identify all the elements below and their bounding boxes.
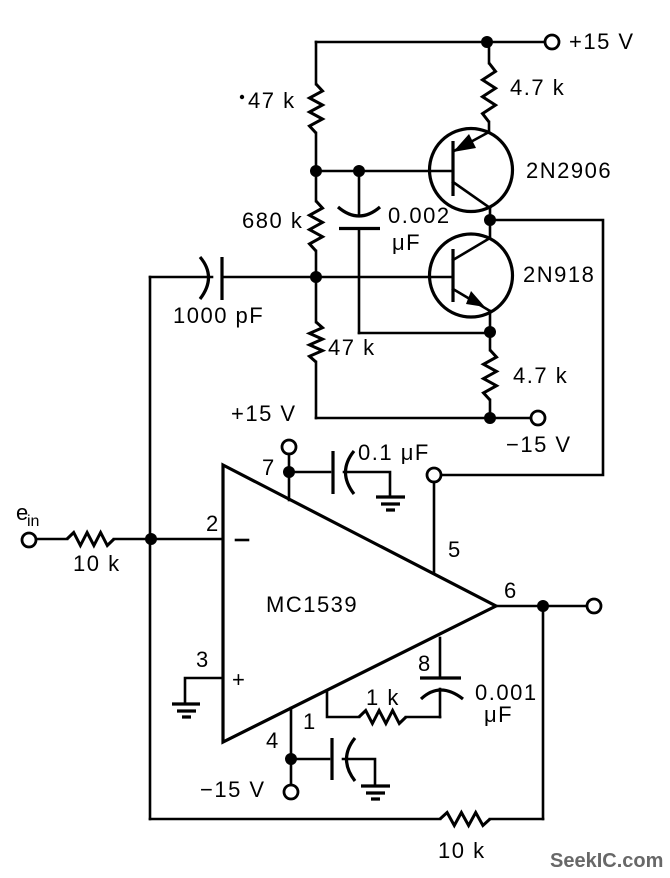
svg-text:10 k: 10 k	[73, 551, 121, 576]
svg-text:2N2906: 2N2906	[526, 158, 612, 183]
svg-text:μF: μF	[484, 702, 513, 727]
svg-text:1000 pF: 1000 pF	[173, 303, 264, 328]
svg-text:2N918: 2N918	[523, 262, 595, 287]
svg-text:μF: μF	[392, 230, 421, 255]
svg-text:7: 7	[262, 455, 276, 480]
svg-text:47 k: 47 k	[248, 88, 296, 113]
svg-text:−15 V: −15 V	[506, 432, 572, 457]
svg-text:0.1 μF: 0.1 μF	[358, 440, 430, 465]
svg-text:5: 5	[448, 537, 462, 562]
svg-text:8: 8	[418, 651, 432, 676]
svg-text:+: +	[232, 667, 246, 692]
svg-text:680 k: 680 k	[242, 208, 303, 233]
svg-text:MC1539: MC1539	[266, 592, 358, 617]
svg-text:47 k: 47 k	[328, 335, 376, 360]
svg-text:4: 4	[266, 728, 280, 753]
svg-text:1 k: 1 k	[366, 685, 400, 710]
svg-text:10 k: 10 k	[438, 838, 486, 863]
svg-text:2: 2	[206, 511, 220, 536]
svg-text:in: in	[27, 513, 39, 530]
svg-text:1: 1	[303, 709, 317, 734]
svg-text:6: 6	[504, 578, 518, 603]
svg-text:3: 3	[196, 647, 210, 672]
svg-text:SeekIC.com: SeekIC.com	[550, 850, 663, 872]
svg-text:−15 V: −15 V	[200, 777, 266, 802]
svg-text:4.7 k: 4.7 k	[510, 75, 565, 100]
svg-text:4.7 k: 4.7 k	[513, 363, 568, 388]
svg-text:0.002: 0.002	[388, 203, 451, 228]
svg-text:+15 V: +15 V	[569, 29, 635, 54]
svg-text:+15 V: +15 V	[231, 401, 297, 426]
